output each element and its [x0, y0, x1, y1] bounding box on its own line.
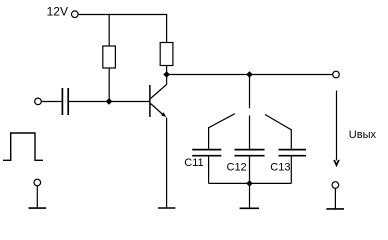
svg-text:Uвых: Uвых [349, 129, 377, 141]
wire: capacitor bank bottom rail [209, 182, 292, 184]
resistor (right, collector load) [160, 43, 173, 66]
node: bottom rail center junction [246, 180, 253, 187]
ground (input common) [29, 207, 47, 209]
ground (capacitor bank) [240, 207, 259, 209]
node: base junction [106, 98, 113, 105]
transistor: emitter lead with arrow [151, 104, 165, 116]
ground (output common) [326, 208, 344, 210]
transistor: base bar [149, 85, 151, 117]
wire: bottom rail stem to ground [249, 183, 251, 207]
capacitor C12 [235, 150, 265, 156]
capacitor (input coupling) [62, 88, 68, 115]
resistor (left, base bias) [103, 46, 116, 68]
wire: emitter down to ground [166, 118, 168, 208]
capacitor C11 [192, 150, 221, 156]
input common terminal [34, 179, 41, 186]
wire: C11 bottom lead [208, 157, 210, 184]
wire: capacitor bank stem (upper) [249, 75, 251, 109]
wire: C12 bottom lead [249, 157, 251, 184]
wire: input to coupling capacitor [41, 101, 61, 103]
wire: C13 bottom lead [290, 157, 292, 184]
wire: output common stem [334, 188, 336, 208]
arrow: output voltage direction [336, 91, 338, 161]
wire: right resistor bottom lead [166, 66, 168, 75]
wire: branch to C13 [265, 115, 291, 149]
wire: left resistor top lead [108, 14, 110, 46]
pulse waveform symbol [3, 133, 43, 160]
supply terminal (12V) [72, 11, 79, 18]
output terminal (top) [333, 71, 340, 78]
wire: capacitor to base [69, 101, 149, 103]
svg-text:C13: C13 [270, 161, 290, 173]
ground (emitter) [158, 207, 175, 209]
svg-text:C12: C12 [227, 161, 247, 173]
wire: left resistor bottom lead [108, 68, 110, 102]
input terminal [35, 98, 42, 105]
svg-text:12V: 12V [47, 5, 68, 19]
svg-text:C11: C11 [184, 157, 203, 169]
transistor: collector lead [151, 75, 167, 99]
wire: collector to output [167, 74, 333, 76]
wire: input common stem [36, 186, 38, 208]
wire: capacitor bank stem (lower, to C12) [249, 116, 251, 149]
output terminal (bottom) [332, 182, 339, 189]
node: collector junction [163, 71, 170, 78]
wire: top supply rail [78, 15, 167, 43]
wire: branch to C11 [209, 114, 235, 149]
node: output rail to capacitor bank [246, 71, 253, 78]
capacitor C13 [279, 150, 307, 156]
